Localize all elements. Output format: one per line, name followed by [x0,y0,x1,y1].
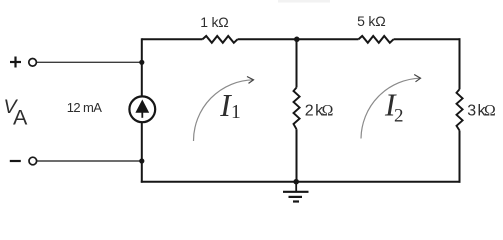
svg-text:12 mA: 12 mA [67,100,103,115]
resistor R4 3 kOhm zigzag [457,89,463,130]
resistor R1 1 kOhm zigzag [203,36,238,43]
minus sign [10,160,21,162]
svg-text:1: 1 [231,102,241,123]
terminal circle minus [29,157,37,165]
node junction dot bottom middle [293,179,299,185]
wire top rail right segment [394,38,461,40]
mesh current I2 arc arrow [361,78,421,138]
ground [295,182,297,192]
resistor R2 5 kOhm zigzag [359,36,394,43]
node junction dot plus [139,60,144,65]
wire left vertical lower [141,122,143,183]
mesh current I1 arc arrow [193,80,253,141]
svg-text:A: A [13,106,28,130]
wire top rail middle segment [238,38,359,40]
plus sign [10,61,21,63]
wire middle branch lower [296,129,298,183]
terminal wire minus [37,160,142,162]
wire left vertical upper [141,38,143,96]
current source I 12 mA [129,96,155,122]
node junction dot minus [139,158,144,163]
faint cropped text remnant top [278,0,330,3]
wire right vertical lower [459,131,461,183]
wire top rail left segment [142,38,203,40]
node junction dot top middle [294,37,300,43]
wire bottom rail [141,181,461,183]
svg-text:5 kΩ: 5 kΩ [357,13,385,29]
terminal wire plus [37,61,142,63]
wire right vertical upper [459,38,461,89]
svg-text:2 kΩ: 2 kΩ [305,102,334,119]
wire middle branch upper [296,38,298,87]
svg-text:2: 2 [394,105,404,126]
svg-text:3 kΩ: 3 kΩ [467,103,496,120]
svg-text:1 kΩ: 1 kΩ [200,14,228,30]
terminal circle plus [29,59,37,67]
resistor R3 2 kOhm zigzag [294,88,300,130]
